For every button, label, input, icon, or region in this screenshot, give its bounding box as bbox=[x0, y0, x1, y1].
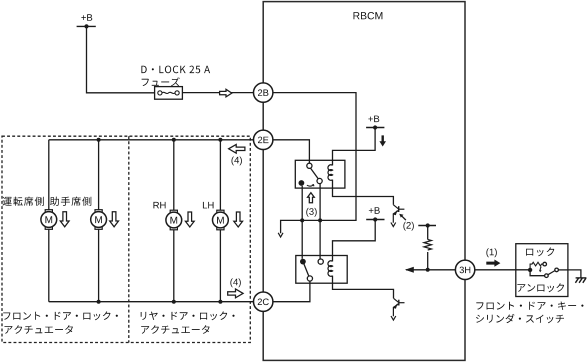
label (1) bbox=[486, 248, 496, 257]
label driver side bbox=[3, 197, 44, 206]
arrow motor M3 direction bbox=[185, 212, 194, 227]
flow arrow up (3) bbox=[308, 193, 315, 203]
label unlock (in switch box) bbox=[517, 283, 564, 292]
key switch actuation arrow bbox=[539, 267, 542, 273]
arrow motor M2 direction bbox=[110, 212, 119, 227]
wire relay1 coil to transistor Q1 bbox=[333, 180, 394, 205]
connector pin 2B bbox=[254, 83, 273, 102]
key switch unlock branch bbox=[530, 270, 544, 276]
motor M2 passenger door lock bbox=[91, 210, 107, 230]
junction relay bus / relay1 fixed contact line bbox=[300, 218, 304, 222]
relay RY2 NC fixed contact bbox=[300, 259, 306, 265]
wire bottom bus (actuators to 2C) bbox=[49, 301, 254, 303]
flow arrow right (1) (bold) bbox=[486, 260, 500, 267]
wire motor 4 branch bbox=[219, 140, 221, 302]
wire bar to resistor R1 bbox=[427, 226, 429, 240]
junction R1 / 3H line bbox=[426, 268, 430, 272]
relay RY1 (lock relay) box bbox=[295, 160, 345, 188]
wire relay2 pivot to 2C bbox=[273, 281, 310, 302]
junction relay bus / relay1 moving contact line bbox=[318, 218, 322, 222]
key switch output contact bbox=[555, 268, 559, 272]
door lock actuator dashed enclosure bbox=[2, 136, 250, 342]
wire 3H to key cylinder switch bbox=[475, 269, 530, 271]
relay RY2 (unlock relay) box bbox=[296, 256, 347, 284]
fuse label D-LOCK 25 A bbox=[141, 66, 210, 74]
relay RY1 NO contact bbox=[317, 178, 322, 183]
relay RY1 moving arm bbox=[311, 168, 319, 179]
label (4) lower bbox=[230, 278, 240, 287]
dashed divider front/rear actuator bbox=[128, 136, 130, 342]
wire motor 3 branch bbox=[173, 140, 175, 302]
fuse D-LOCK 25A bbox=[155, 87, 183, 100]
junction top bus / motor2 bbox=[97, 138, 101, 142]
+B supply relay1 coil bbox=[366, 116, 384, 130]
junction bottom bus / motor3 bbox=[172, 300, 176, 304]
label passenger side bbox=[50, 197, 91, 206]
junction top bus / motor3 bbox=[172, 138, 176, 142]
transistor Q2 (unlock driver) bbox=[391, 298, 405, 320]
label (4) upper bbox=[231, 157, 241, 166]
flow arrow right (4) near 2C bbox=[228, 289, 243, 298]
relay RY2 coil bbox=[328, 261, 333, 276]
junction bottom bus / motor4 bbox=[218, 300, 222, 304]
label rear door lock actuator line1 bbox=[141, 311, 235, 320]
wire relay2 coil to transistor Q2 bbox=[333, 276, 394, 299]
fuse label fuuzu bbox=[142, 77, 180, 86]
connector pin 2E bbox=[254, 130, 273, 149]
wire resistor R1 to 3H line bbox=[427, 252, 429, 270]
motor M1 driver door lock bbox=[41, 210, 57, 230]
wire motor 1 branch bbox=[48, 140, 50, 302]
caption front door key cylinder switch line1 bbox=[476, 302, 583, 310]
wire relay1 moving contact down to relay2 bbox=[319, 184, 321, 260]
key switch lock branch resistor bbox=[530, 262, 542, 270]
wire +B to relay2 coil bbox=[333, 220, 376, 262]
relay RY2 moving arm bbox=[304, 264, 309, 276]
label (3) bbox=[306, 208, 316, 217]
motor M4 LH rear door lock bbox=[213, 210, 229, 230]
+B battery supply (top-left) bbox=[77, 14, 96, 28]
wire top bus (2E to actuators) bbox=[49, 139, 254, 141]
wire 3H line left segment bbox=[406, 269, 455, 271]
relay RY1 actuation hook bbox=[307, 185, 314, 187]
connector pin 2C bbox=[254, 292, 273, 311]
filled left arrowhead on 3H line bbox=[405, 267, 414, 273]
junction top bus / motor4 bbox=[218, 138, 222, 142]
connector pin 3H bbox=[455, 260, 474, 279]
relay RY1 coil bbox=[328, 165, 333, 180]
resistor R1 bbox=[424, 240, 431, 251]
motor M3 RH rear door lock bbox=[166, 210, 182, 230]
RBCM label bbox=[353, 12, 382, 19]
key switch unlock contact bbox=[545, 274, 549, 278]
transistor Q1 (lock driver) bbox=[391, 205, 405, 227]
key cylinder switch box bbox=[516, 244, 568, 297]
caption front door key cylinder switch line2 bbox=[476, 314, 564, 323]
key switch output to ground bbox=[558, 269, 568, 271]
wire motor 2 branch bbox=[98, 140, 100, 302]
arrow motor M4 direction bbox=[234, 212, 243, 227]
wire 2E to relay1 common bbox=[273, 140, 310, 163]
annotation arrow into Q1 bbox=[399, 214, 406, 220]
flow arrow down (bold) at +B relay1 bbox=[379, 135, 386, 146]
label (2) bbox=[403, 222, 413, 231]
label rear door lock actuator line2 bbox=[141, 325, 209, 334]
relay RY1 common contact bbox=[307, 163, 312, 168]
wire relay1 fixed contact down to relay2 bbox=[301, 186, 303, 259]
wire switch to ground symbol bbox=[568, 270, 581, 278]
label RH bbox=[153, 202, 165, 209]
+B supply relay2 coil bbox=[366, 207, 384, 221]
wire fuse to 2B bbox=[182, 92, 253, 94]
label front door lock actuator line1 bbox=[3, 311, 118, 320]
supply bar above resistor R1 bbox=[418, 223, 436, 227]
key switch lock contact bbox=[543, 262, 547, 266]
label LH bbox=[203, 202, 214, 209]
label lock (in switch box) bbox=[526, 247, 554, 256]
wire +B to relay1 coil bbox=[333, 128, 376, 166]
relay RY2 pivot contact bbox=[307, 276, 312, 281]
arrow continuation down-left branch bbox=[278, 233, 283, 237]
junction bottom bus / motor2 bbox=[97, 300, 101, 304]
ground (body earth) bbox=[575, 278, 586, 283]
arrow motor M1 direction bbox=[60, 212, 69, 227]
RBCM module box bbox=[263, 2, 465, 361]
key switch common node bbox=[528, 268, 532, 272]
flow arrow left (4) near 2E bbox=[229, 144, 245, 153]
relay RY1 NC fixed contact bbox=[299, 180, 305, 186]
key switch moving arm bbox=[548, 271, 555, 275]
wire +B to fuse bbox=[87, 26, 155, 92]
wire 2B to relay bus bbox=[273, 93, 356, 234]
flow arrow right (fuse to 2B) bbox=[220, 89, 232, 97]
label front door lock actuator line2 bbox=[5, 325, 73, 334]
relay RY2 NO contact bbox=[318, 259, 323, 264]
